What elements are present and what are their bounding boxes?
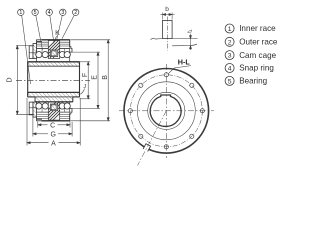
cam cage bottom block xyxy=(38,102,71,120)
leader to bolt hole xyxy=(168,66,191,74)
svg-text:C: C xyxy=(50,122,55,129)
shaft surface line right xyxy=(172,38,198,40)
dimension J leader xyxy=(80,84,86,94)
bearing cavity top xyxy=(37,49,70,62)
inner race sleeve top band xyxy=(28,62,80,66)
svg-text:Cam cage: Cam cage xyxy=(239,51,276,60)
cage rib ticks top xyxy=(42,49,65,113)
svg-text:K: K xyxy=(55,30,60,37)
callout circle 3 xyxy=(57,9,67,40)
bearing ball bottom-right pair xyxy=(59,103,65,109)
cam cage top block xyxy=(38,40,71,59)
dimension b xyxy=(160,6,174,20)
bolt hole 90 xyxy=(164,73,168,77)
legend item 1 Inner race xyxy=(225,24,276,33)
bore circle with keyway xyxy=(150,95,181,126)
rim notch xyxy=(143,143,151,151)
horizontal centerline xyxy=(119,110,214,112)
bolt hole 225 xyxy=(139,134,143,138)
dimension t1 xyxy=(188,29,194,50)
keyway detail view xyxy=(151,6,198,51)
dimension C xyxy=(38,122,70,130)
svg-text:Snap ring: Snap ring xyxy=(239,64,274,73)
key rectangle xyxy=(163,20,173,38)
svg-text:5: 5 xyxy=(34,10,37,16)
inner race bore bottom line xyxy=(28,92,80,97)
label K xyxy=(55,30,61,42)
inner race left face xyxy=(27,62,29,97)
dimension F xyxy=(80,62,91,99)
outer race bottom body xyxy=(37,112,70,121)
legend item 3 Cam cage xyxy=(225,51,276,60)
shaft surface line left xyxy=(151,38,163,39)
svg-text:J: J xyxy=(83,84,86,90)
inner race bottom end faces xyxy=(28,96,35,98)
diagonal centerline xyxy=(138,111,167,166)
snap ring cap left top xyxy=(29,44,36,59)
hub circle xyxy=(148,92,185,129)
svg-text:B: B xyxy=(102,75,109,80)
legend item 2 Outer race xyxy=(225,37,278,46)
bearing ball bottom-left pair xyxy=(36,103,42,109)
svg-text:4: 4 xyxy=(48,10,51,16)
flange end view H-L xyxy=(119,57,214,165)
svg-text:G: G xyxy=(50,131,55,138)
callout circle 5 xyxy=(32,9,43,50)
callout circle 4 xyxy=(46,9,54,43)
dimension A xyxy=(27,98,80,147)
bearing ball top-left pair xyxy=(36,52,42,58)
svg-text:t₁: t₁ xyxy=(188,29,194,33)
vertical centerline xyxy=(165,64,167,158)
bolt hole 315 xyxy=(190,134,194,138)
legend xyxy=(225,24,278,86)
bolt hole 45 xyxy=(190,83,194,87)
legend item 5 Bearing xyxy=(225,76,267,85)
bolt circle xyxy=(130,75,202,147)
dimension B xyxy=(70,40,110,121)
bolt hole 270 xyxy=(164,145,168,149)
callout circle 2 xyxy=(62,9,79,39)
svg-text:A: A xyxy=(51,140,56,147)
bolt hole 180 xyxy=(128,109,132,113)
callout circle 1 xyxy=(18,9,31,84)
svg-text:H-L: H-L xyxy=(178,57,191,66)
dimension D xyxy=(7,46,35,115)
svg-text:Bearing: Bearing xyxy=(239,77,267,86)
right shoulder steps top xyxy=(70,40,72,52)
svg-text:E: E xyxy=(92,75,99,80)
outer circle xyxy=(124,69,209,154)
bearing cavity bottom xyxy=(37,102,70,112)
inner race bottom middle raised band xyxy=(35,97,73,102)
svg-text:Outer race: Outer race xyxy=(239,38,278,47)
inner race right face xyxy=(79,62,81,97)
dimension E xyxy=(72,52,100,108)
recess circle xyxy=(137,82,195,140)
svg-text:D: D xyxy=(7,77,14,82)
svg-text:b: b xyxy=(165,6,169,13)
detail centerline xyxy=(166,17,168,51)
outer race top body xyxy=(37,40,70,49)
bearing ball top-right pair xyxy=(59,52,65,58)
svg-text:Inner race: Inner race xyxy=(239,24,276,33)
svg-text:5: 5 xyxy=(228,79,232,86)
svg-text:3: 3 xyxy=(228,53,232,60)
svg-text:2: 2 xyxy=(228,39,232,46)
snap ring cap left bottom xyxy=(29,102,36,117)
keyway depth line right xyxy=(172,44,197,46)
right shoulder steps bottom xyxy=(70,109,72,121)
svg-text:1: 1 xyxy=(228,26,232,33)
svg-text:2: 2 xyxy=(74,10,77,16)
centerline axis xyxy=(16,79,90,81)
legend item 4 Snap ring xyxy=(225,64,274,73)
bolt hole 135 xyxy=(139,83,143,87)
dimension G xyxy=(33,116,72,139)
bolt hole 0 xyxy=(200,109,204,113)
svg-text:F: F xyxy=(82,73,89,77)
svg-text:4: 4 xyxy=(228,66,232,73)
svg-text:3: 3 xyxy=(61,10,64,16)
